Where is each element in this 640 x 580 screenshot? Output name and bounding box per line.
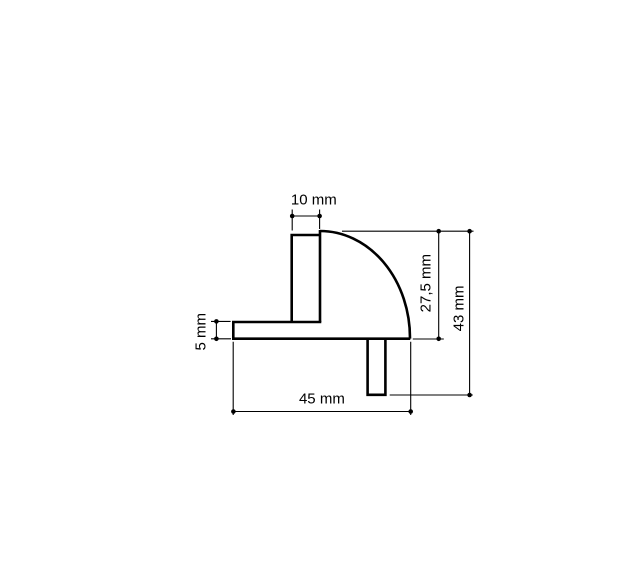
svg-text:27,5 mm: 27,5 mm (418, 254, 435, 312)
svg-text:43 mm: 43 mm (450, 285, 467, 331)
dome quarter arc (320, 231, 410, 339)
dim 27.5mm dots (436, 229, 441, 234)
dim 45mm line (233, 411, 410, 413)
door stop profile outline: base plate (233, 322, 410, 339)
top tab (292, 230, 321, 322)
shared top extension line (342, 230, 474, 232)
dim 10mm line (292, 215, 319, 217)
svg-text:10 mm: 10 mm (291, 192, 337, 209)
dim 43mm bottom extension (390, 394, 473, 396)
dim 27.5mm line (438, 231, 440, 339)
dim 5mm line (215, 321, 217, 338)
dim 43mm line (469, 231, 471, 395)
dim 27.5mm bottom extension (413, 338, 444, 340)
dim 10mm extension lines (292, 210, 319, 231)
dim 5mm extension lines (211, 321, 231, 338)
dim 10mm dots (290, 214, 295, 219)
bottom peg (368, 339, 386, 395)
dim 45mm dots (231, 409, 236, 414)
dim 43mm dots (467, 229, 472, 234)
dim 5mm dots (214, 319, 219, 324)
dim 45mm extension lines (233, 342, 411, 415)
svg-text:45 mm: 45 mm (299, 390, 345, 407)
svg-text:5 mm: 5 mm (193, 313, 210, 351)
